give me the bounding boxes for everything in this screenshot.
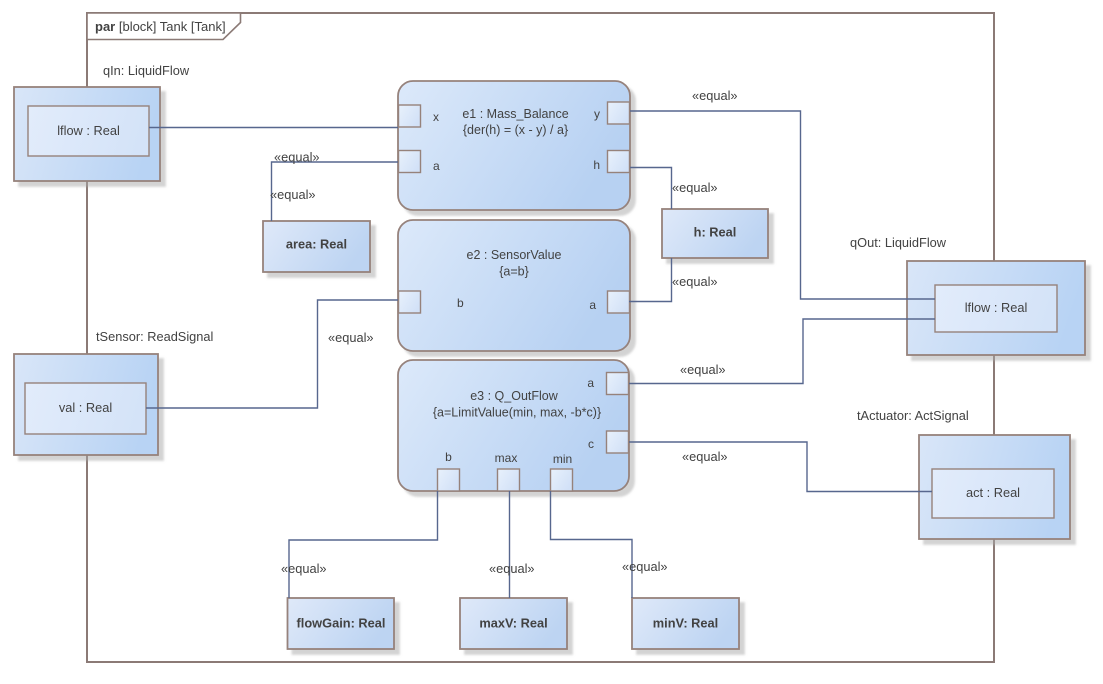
label «equal» on e2.a wire bbox=[672, 274, 718, 289]
svg-text:«equal»: «equal» bbox=[680, 362, 726, 377]
svg-text:«equal»: «equal» bbox=[622, 559, 668, 574]
port e1.h bbox=[593, 151, 629, 173]
svg-text:a: a bbox=[433, 159, 440, 173]
property lflow : Real inside qOut bbox=[935, 285, 1057, 332]
constraint block e1 : Mass_Balance bbox=[398, 81, 630, 210]
frame header tab: par [block] Tank [Tank] bbox=[87, 13, 241, 40]
svg-text:«equal»: «equal» bbox=[692, 88, 738, 103]
label «equal» upper on e1.a wire bbox=[274, 150, 320, 165]
port e2.b bbox=[399, 291, 465, 313]
value box area: Real bbox=[263, 221, 370, 272]
port tSensor: ReadSignal (outer box) bbox=[14, 354, 158, 455]
svg-text:maxV: Real: maxV: Real bbox=[479, 616, 547, 631]
svg-text:h: h bbox=[593, 158, 600, 172]
svg-text:«equal»: «equal» bbox=[682, 449, 728, 464]
label «equal» on val wire bbox=[328, 330, 374, 345]
label qOut: LiquidFlow bbox=[850, 235, 947, 250]
svg-text:«equal»: «equal» bbox=[672, 180, 718, 195]
constraint block e3 : Q_OutFlow bbox=[398, 360, 629, 491]
wire e1.h to h: Real bbox=[630, 168, 672, 210]
wire e3.a to qOut.lflow bbox=[629, 319, 935, 384]
wire qIn.lflow to e1.x bbox=[149, 127, 398, 129]
port e3.max (bottom) bbox=[495, 451, 520, 491]
label «equal» on flowGain wire bbox=[281, 561, 327, 576]
wire e3.c to tActuator.act bbox=[629, 442, 932, 492]
svg-text:b: b bbox=[457, 296, 464, 310]
port e1.x bbox=[399, 105, 440, 127]
svg-text:«equal»: «equal» bbox=[672, 274, 718, 289]
svg-text:a: a bbox=[587, 376, 594, 390]
label «equal» on e3.a wire bbox=[680, 362, 726, 377]
label «equal» on minV wire bbox=[622, 559, 668, 574]
svg-text:min: min bbox=[553, 452, 572, 466]
value box flowGain: Real bbox=[288, 598, 395, 649]
port e3.a bbox=[587, 373, 628, 395]
svg-text:e3 : Q_OutFlow: e3 : Q_OutFlow bbox=[470, 389, 559, 403]
svg-text:b: b bbox=[445, 450, 452, 464]
svg-text:area: Real: area: Real bbox=[286, 237, 347, 252]
wire e1.y to qOut.lflow bbox=[630, 111, 935, 299]
label «equal» on e3.c wire bbox=[682, 449, 728, 464]
port e3.min (bottom) bbox=[551, 452, 573, 491]
wire e2.a to h: Real bbox=[629, 258, 672, 302]
wire e3.min to minV: Real bbox=[551, 491, 633, 598]
svg-text:«equal»: «equal» bbox=[489, 561, 535, 576]
diagram frame bbox=[87, 13, 994, 662]
label tSensor: ReadSignal bbox=[96, 329, 213, 344]
property val : Real inside tSensor bbox=[25, 383, 146, 434]
svg-text:«equal»: «equal» bbox=[328, 330, 374, 345]
label qIn: LiquidFlow bbox=[103, 63, 190, 78]
svg-text:e1 : Mass_Balance: e1 : Mass_Balance bbox=[462, 107, 568, 121]
value box maxV: Real bbox=[460, 598, 567, 649]
label «equal» on maxV wire bbox=[489, 561, 535, 576]
port qOut: LiquidFlow (outer box) bbox=[907, 261, 1085, 355]
port e1.a bbox=[399, 151, 441, 174]
property lflow : Real inside qIn bbox=[28, 106, 149, 156]
value box h: Real bbox=[662, 209, 768, 258]
svg-text:«equal»: «equal» bbox=[281, 561, 327, 576]
label tActuator: ActSignal bbox=[857, 408, 969, 423]
svg-text:c: c bbox=[588, 437, 594, 451]
wire e3.max to maxV: Real bbox=[509, 491, 511, 598]
label «equal» on e1.y wire bbox=[692, 88, 738, 103]
port e2.a bbox=[589, 291, 629, 313]
property act : Real inside tActuator bbox=[932, 469, 1054, 518]
label «equal» lower on e1.a wire bbox=[270, 187, 316, 202]
svg-text:h: Real: h: Real bbox=[694, 225, 737, 240]
svg-text:qOut: LiquidFlow: qOut: LiquidFlow bbox=[850, 235, 947, 250]
port tActuator: ActSignal (outer box) bbox=[919, 435, 1070, 539]
svg-text:tSensor: ReadSignal: tSensor: ReadSignal bbox=[96, 329, 213, 344]
value box minV: Real bbox=[632, 598, 739, 649]
svg-text:«equal»: «equal» bbox=[274, 150, 320, 165]
wire e1.a to area: Real bbox=[272, 162, 399, 221]
svg-text:val : Real: val : Real bbox=[59, 400, 112, 415]
port e1.y bbox=[594, 102, 630, 124]
svg-text:a: a bbox=[589, 298, 596, 312]
port qIn: LiquidFlow (outer box) bbox=[14, 87, 160, 181]
label «equal» on e1.h wire bbox=[672, 180, 718, 195]
svg-text:e2 : SensorValue: e2 : SensorValue bbox=[467, 248, 562, 262]
constraint block e2 : SensorValue bbox=[398, 220, 630, 351]
wire e3.b to flowGain: Real bbox=[289, 491, 438, 598]
svg-text:lflow : Real: lflow : Real bbox=[57, 123, 120, 138]
svg-text:{a=LimitValue(min, max, -b*c)}: {a=LimitValue(min, max, -b*c)} bbox=[433, 406, 601, 420]
svg-text:lflow : Real: lflow : Real bbox=[965, 300, 1028, 315]
svg-text:minV: Real: minV: Real bbox=[653, 616, 718, 631]
port e3.b (bottom) bbox=[438, 450, 460, 491]
svg-text:x: x bbox=[433, 110, 439, 124]
wire tSensor.val to e2.b bbox=[146, 300, 398, 408]
port e3.c bbox=[588, 431, 629, 453]
svg-text:par [block] Tank [Tank]: par [block] Tank [Tank] bbox=[95, 19, 226, 34]
svg-text:y: y bbox=[594, 107, 600, 121]
svg-text:tActuator: ActSignal: tActuator: ActSignal bbox=[857, 408, 969, 423]
svg-text:flowGain: Real: flowGain: Real bbox=[297, 616, 386, 631]
svg-text:{der(h) = (x - y) / a}: {der(h) = (x - y) / a} bbox=[463, 123, 568, 137]
svg-text:act : Real: act : Real bbox=[966, 485, 1020, 500]
svg-text:{a=b}: {a=b} bbox=[499, 265, 529, 279]
svg-text:qIn: LiquidFlow: qIn: LiquidFlow bbox=[103, 63, 190, 78]
svg-text:max: max bbox=[495, 451, 518, 465]
svg-text:«equal»: «equal» bbox=[270, 187, 316, 202]
